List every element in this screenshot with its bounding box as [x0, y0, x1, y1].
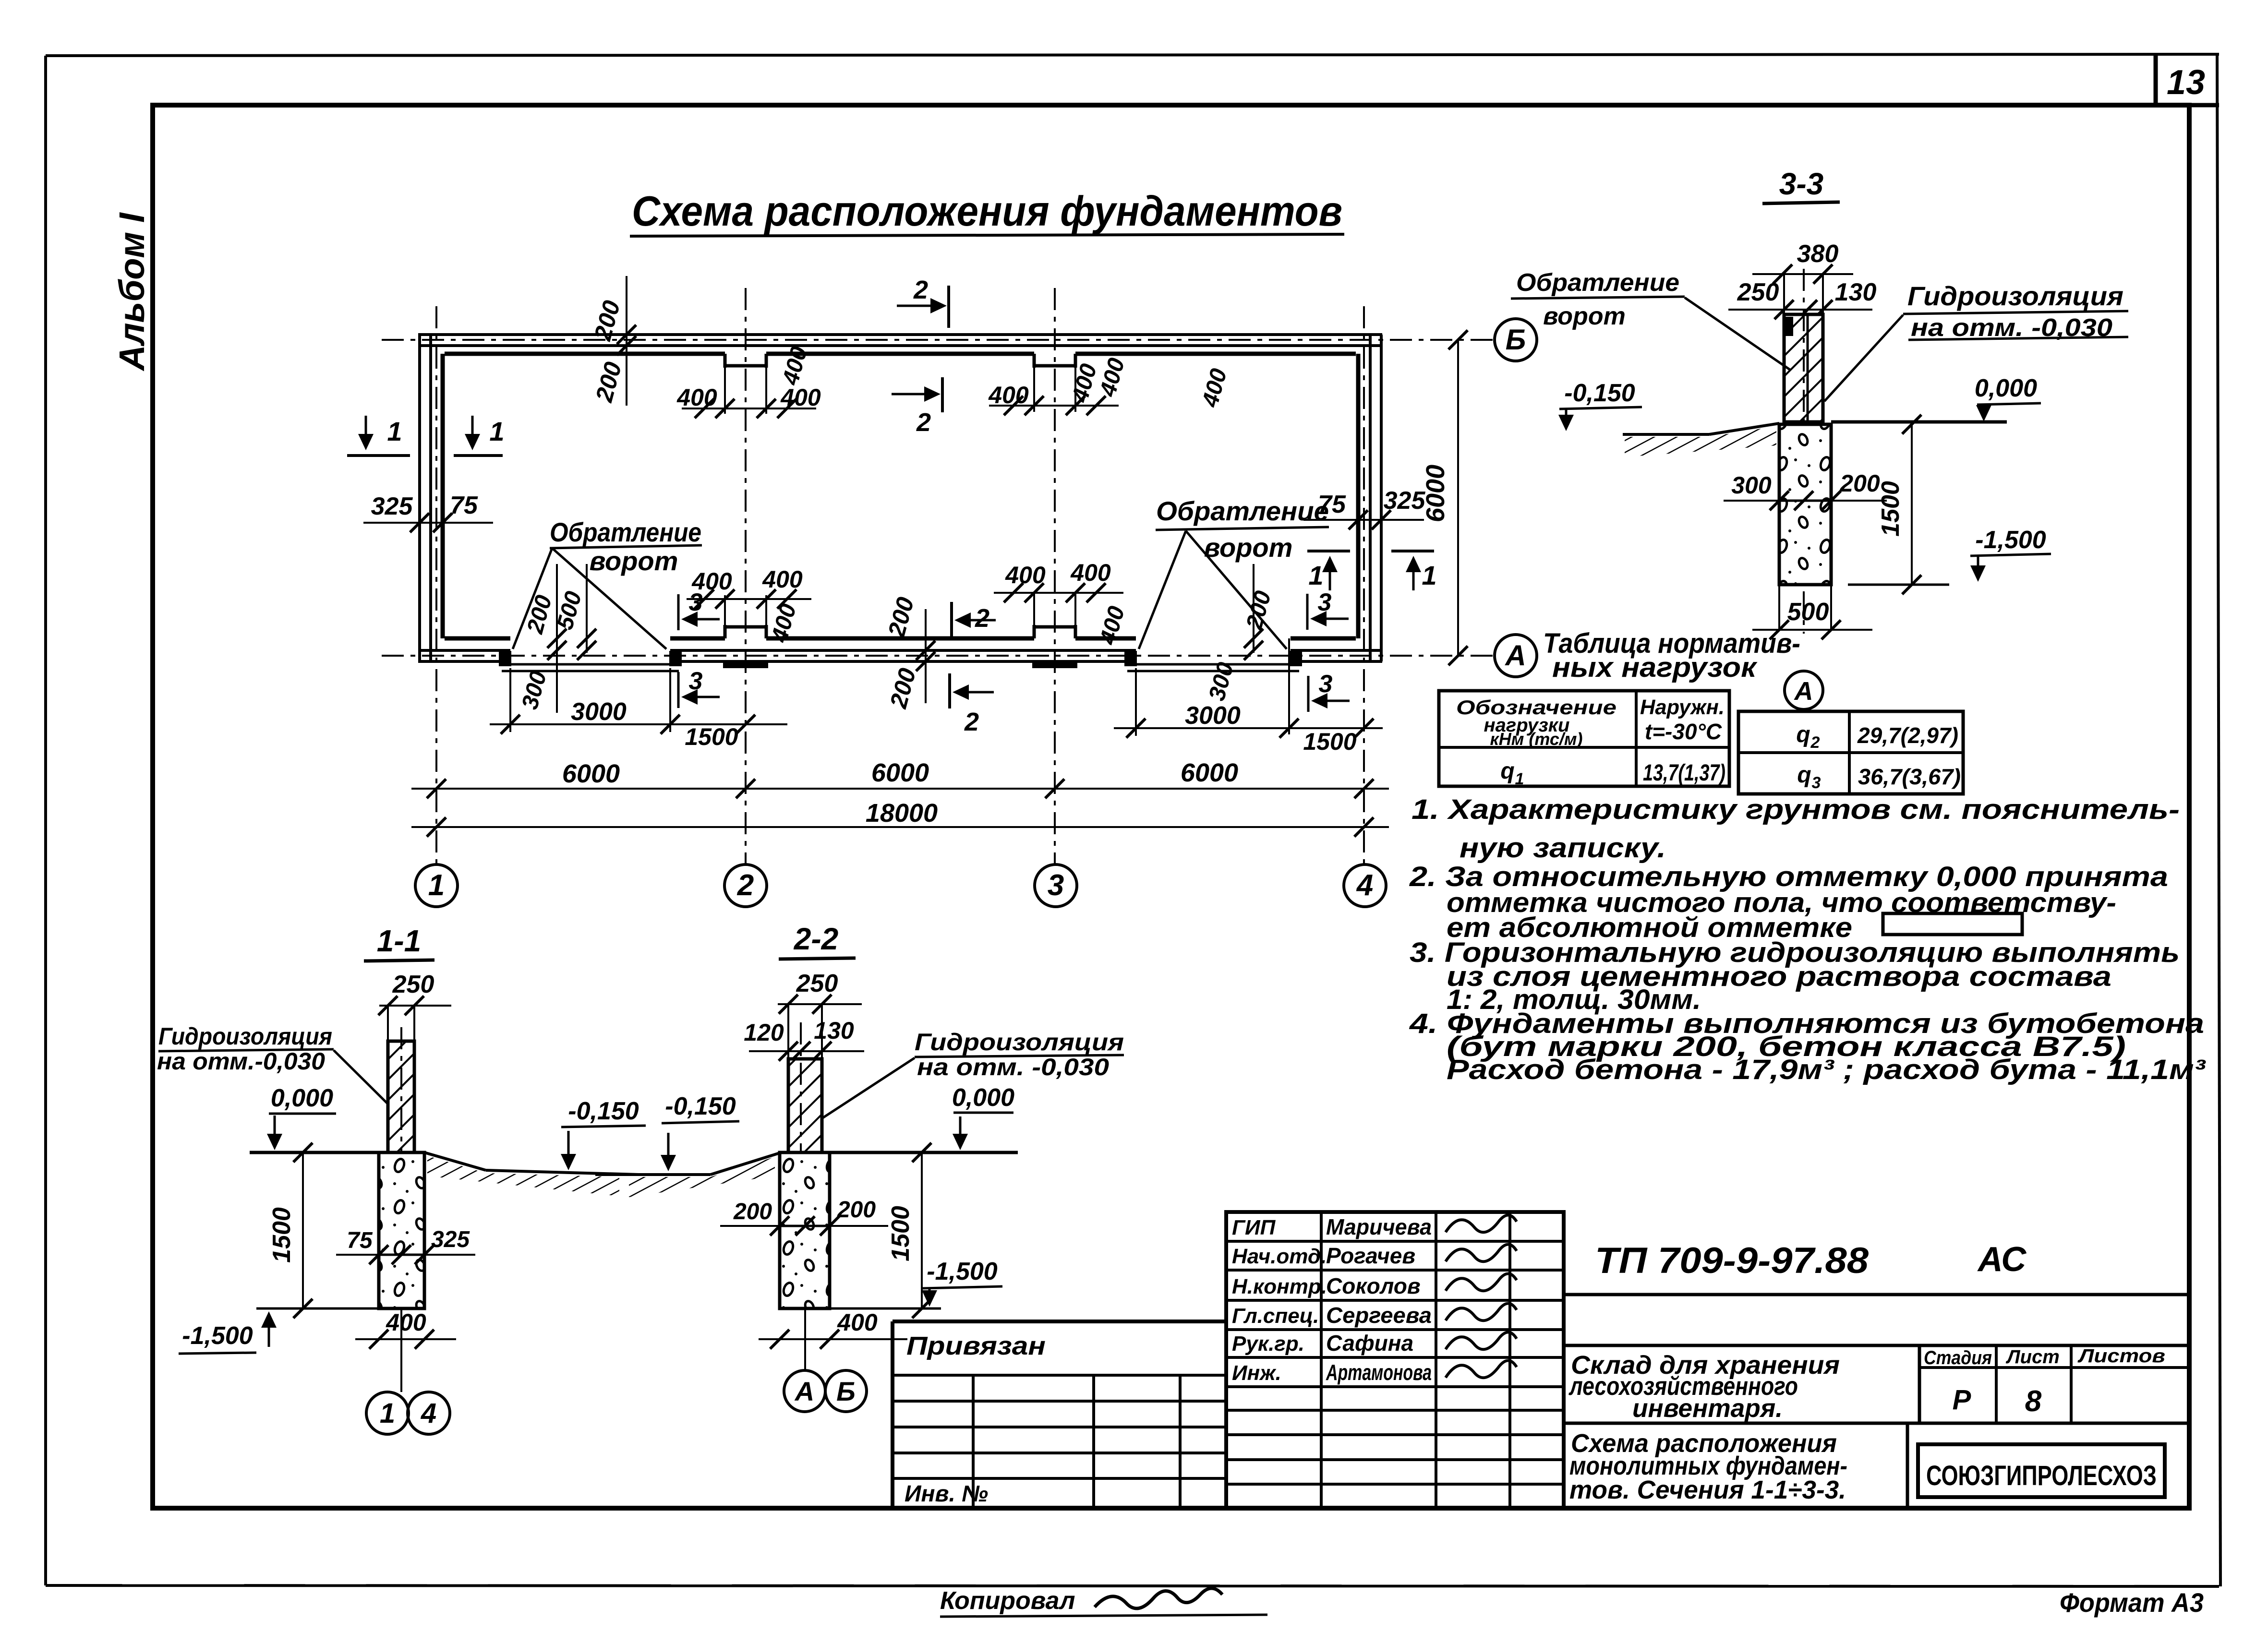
svg-text:250: 250 — [796, 970, 838, 997]
svg-text:2: 2 — [964, 708, 979, 736]
svg-text:3: 3 — [689, 588, 703, 616]
svg-text:1-1: 1-1 — [377, 924, 422, 958]
svg-text:Наружн.: Наружн. — [1640, 696, 1725, 719]
svg-text:-0,150: -0,150 — [568, 1097, 639, 1125]
svg-text:А: А — [794, 1376, 814, 1406]
svg-text:Гл.спец.: Гл.спец. — [1232, 1304, 1319, 1328]
svg-text:ТП 709-9-97.88: ТП 709-9-97.88 — [1595, 1240, 1869, 1281]
svg-text:2: 2 — [737, 869, 754, 902]
svg-text:-0,150: -0,150 — [665, 1092, 736, 1120]
svg-text:Формат А3: Формат А3 — [2060, 1587, 2204, 1618]
svg-text:400: 400 — [762, 566, 803, 593]
svg-text:ных нагрузок: ных нагрузок — [1552, 652, 1758, 683]
svg-text:400: 400 — [988, 382, 1029, 408]
svg-text:325: 325 — [371, 492, 413, 520]
svg-text:на отм. -0,030: на отм. -0,030 — [917, 1054, 1109, 1080]
svg-text:Схема расположения фундаментов: Схема расположения фундаментов — [632, 187, 1342, 235]
svg-text:75: 75 — [347, 1228, 373, 1253]
svg-text:4: 4 — [1356, 869, 1373, 902]
svg-text:400: 400 — [386, 1309, 426, 1336]
svg-text:3000: 3000 — [571, 698, 627, 726]
svg-text:1500: 1500 — [268, 1207, 296, 1263]
svg-text:36,7(3,67): 36,7(3,67) — [1858, 764, 1961, 789]
svg-text:ворот: ворот — [590, 546, 678, 576]
svg-text:Обратление: Обратление — [1156, 496, 1329, 526]
svg-text:400: 400 — [676, 384, 717, 411]
svg-text:Рогачев: Рогачев — [1326, 1243, 1415, 1268]
svg-text:1: 1 — [1515, 770, 1524, 788]
svg-text:29,7(2,97): 29,7(2,97) — [1857, 723, 1958, 748]
svg-text:400: 400 — [780, 384, 821, 411]
svg-text:1500: 1500 — [1877, 481, 1905, 537]
svg-text:Соколов: Соколов — [1326, 1273, 1421, 1298]
svg-text:1500: 1500 — [685, 723, 738, 750]
svg-text:Б: Б — [836, 1376, 856, 1406]
svg-text:500: 500 — [1787, 598, 1829, 626]
svg-text:Б: Б — [1506, 324, 1526, 356]
svg-text:8: 8 — [2025, 1385, 2042, 1418]
svg-text:400: 400 — [837, 1309, 878, 1336]
svg-text:1: 1 — [380, 1398, 395, 1429]
svg-text:75: 75 — [450, 492, 478, 519]
svg-text:тов. Сечения 1-1÷3-3.: тов. Сечения 1-1÷3-3. — [1569, 1476, 1846, 1504]
svg-text:Сергеева: Сергеева — [1326, 1303, 1432, 1328]
svg-text:3000: 3000 — [1185, 702, 1241, 730]
svg-text:Нач.отд.: Нач.отд. — [1232, 1245, 1327, 1268]
svg-text:6000: 6000 — [1181, 758, 1238, 787]
svg-text:0,000: 0,000 — [271, 1084, 333, 1112]
svg-text:380: 380 — [1797, 240, 1839, 268]
svg-text:Артамонова: Артамонова — [1326, 1360, 1432, 1385]
svg-text:Инв. №: Инв. № — [905, 1481, 988, 1507]
svg-text:130: 130 — [1835, 278, 1877, 306]
svg-text:Альбом: Альбом — [112, 232, 152, 372]
svg-text:3: 3 — [1812, 774, 1821, 792]
svg-text:120: 120 — [744, 1019, 784, 1046]
svg-text:Обратление: Обратление — [1516, 269, 1679, 297]
svg-text:кНм (тс/м): кНм (тс/м) — [1490, 729, 1582, 749]
svg-text:1: 1 — [489, 416, 504, 446]
svg-text:200: 200 — [1839, 470, 1880, 497]
svg-text:Р: Р — [1953, 1384, 1971, 1416]
svg-text:А: А — [1794, 677, 1813, 706]
svg-text:1500: 1500 — [887, 1206, 915, 1261]
svg-text:ворот: ворот — [1543, 302, 1626, 330]
svg-text:Рук.гр.: Рук.гр. — [1232, 1332, 1304, 1356]
svg-text:АС: АС — [1977, 1240, 2027, 1279]
svg-text:Обратление: Обратление — [550, 517, 701, 547]
svg-text:ную записку.: ную записку. — [1460, 832, 1666, 864]
svg-text:Привязан: Привязан — [906, 1332, 1046, 1360]
svg-text:Сафина: Сафина — [1326, 1331, 1413, 1356]
svg-text:200: 200 — [733, 1199, 772, 1224]
svg-text:3: 3 — [1048, 869, 1064, 902]
svg-text:400: 400 — [1070, 559, 1111, 586]
svg-text:6000: 6000 — [871, 758, 929, 787]
svg-text:4: 4 — [421, 1398, 436, 1429]
svg-text:6000: 6000 — [562, 759, 620, 788]
svg-text:Копировал: Копировал — [940, 1587, 1075, 1615]
svg-text:Гидроизоляция: Гидроизоляция — [158, 1023, 332, 1050]
svg-text:3-3: 3-3 — [1779, 167, 1824, 201]
svg-text:300: 300 — [1731, 472, 1772, 499]
svg-text:3: 3 — [1318, 588, 1332, 616]
svg-text:325: 325 — [431, 1227, 470, 1252]
svg-text:I: I — [112, 212, 152, 223]
svg-text:СОЮЗГИПРОЛЕСХОЗ: СОЮЗГИПРОЛЕСХОЗ — [1926, 1460, 2157, 1491]
svg-text:250: 250 — [1737, 278, 1779, 306]
svg-text:0,000: 0,000 — [952, 1084, 1014, 1112]
svg-text:400: 400 — [1005, 562, 1046, 588]
svg-text:18000: 18000 — [866, 799, 938, 828]
svg-text:2: 2 — [975, 604, 989, 633]
svg-text:q: q — [1796, 722, 1810, 747]
svg-text:2: 2 — [1810, 733, 1820, 752]
svg-text:1: 1 — [1422, 560, 1436, 590]
svg-text:-1,500: -1,500 — [1975, 526, 2046, 554]
svg-text:q: q — [1797, 762, 1811, 788]
svg-text:-1,500: -1,500 — [927, 1258, 998, 1285]
svg-text:на отм.-0,030: на отм.-0,030 — [157, 1048, 325, 1075]
svg-text:2-2: 2-2 — [794, 922, 839, 956]
svg-text:1: 1 — [428, 869, 445, 902]
svg-text:ГИП: ГИП — [1232, 1216, 1276, 1239]
svg-text:инвентаря.: инвентаря. — [1632, 1394, 1783, 1423]
svg-text:q: q — [1500, 758, 1514, 784]
svg-text:0,000: 0,000 — [1975, 374, 2037, 402]
svg-text:1: 1 — [1308, 560, 1323, 590]
svg-text:1: 1 — [387, 416, 402, 446]
svg-text:325: 325 — [1384, 487, 1426, 515]
svg-text:Гидроизоляция: Гидроизоляция — [1907, 281, 2123, 311]
svg-text:13,7(1,37): 13,7(1,37) — [1643, 760, 1725, 786]
svg-text:13: 13 — [2167, 63, 2205, 102]
svg-text:1. Характеристику грунтов см.: 1. Характеристику грунтов см. пояснитель… — [1411, 794, 2180, 825]
svg-text:t=-30°C: t=-30°C — [1645, 719, 1722, 744]
svg-text:6000: 6000 — [1421, 465, 1450, 522]
svg-text:Лист: Лист — [2005, 1346, 2060, 1368]
svg-text:Н.контр.: Н.контр. — [1232, 1275, 1327, 1298]
svg-text:250: 250 — [392, 971, 434, 998]
svg-text:3: 3 — [689, 667, 703, 695]
svg-text:200: 200 — [837, 1197, 876, 1223]
svg-text:Инж.: Инж. — [1232, 1361, 1281, 1385]
svg-text:Стадия: Стадия — [1924, 1347, 1992, 1368]
svg-text:-0,150: -0,150 — [1564, 379, 1635, 407]
svg-text:Гидроизоляция: Гидроизоляция — [915, 1029, 1124, 1056]
svg-text:1500: 1500 — [1303, 728, 1356, 755]
svg-text:-1,500: -1,500 — [182, 1322, 253, 1350]
svg-text:Маричева: Маричева — [1326, 1214, 1432, 1239]
svg-text:130: 130 — [814, 1017, 854, 1044]
svg-text:2: 2 — [913, 276, 928, 304]
svg-text:А: А — [1504, 639, 1526, 672]
svg-text:Расход бетона - 17,9м³ ; расхо: Расход бетона - 17,9м³ ; расход бута - 1… — [1447, 1054, 2206, 1085]
svg-text:2: 2 — [916, 408, 931, 437]
svg-text:3: 3 — [1319, 670, 1333, 698]
svg-text:ворот: ворот — [1204, 532, 1293, 563]
svg-text:Листов: Листов — [2077, 1345, 2165, 1367]
